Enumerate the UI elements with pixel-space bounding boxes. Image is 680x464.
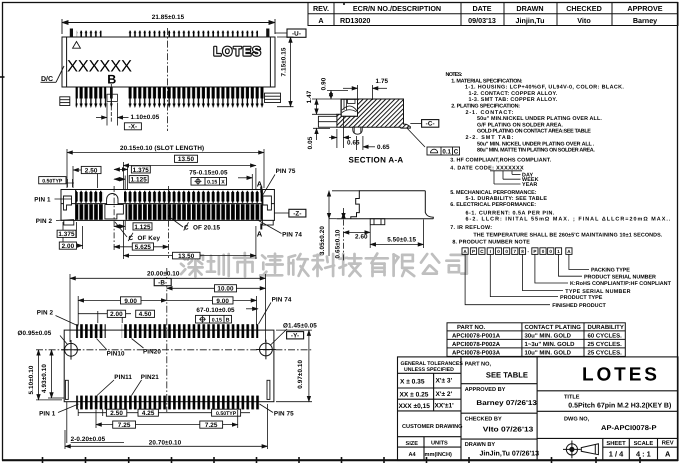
svg-text:PART NO.: PART NO. xyxy=(457,324,486,331)
svg-text:1. MATERIAL SPECIFICATION:: 1. MATERIAL SPECIFICATION: xyxy=(451,78,523,84)
dim 20.70±0.10 xyxy=(65,404,267,449)
centerline of Key label xyxy=(115,222,127,237)
svg-text:C: C xyxy=(454,148,459,155)
datum -Z- xyxy=(274,212,289,214)
svg-text:20.15±0.10 (SLOT LENGTH): 20.15±0.10 (SLOT LENGTH) xyxy=(120,145,204,152)
svg-text:0.1: 0.1 xyxy=(442,148,451,155)
profile tolerance frame 0.1 C xyxy=(427,147,460,155)
svg-text:SIZE: SIZE xyxy=(406,441,419,447)
left metal clip detail xyxy=(64,196,74,225)
svg-text:0.90: 0.90 xyxy=(321,77,328,90)
svg-text:OF 20.15: OF 20.15 xyxy=(193,225,220,232)
svg-text:SECTION A-A: SECTION A-A xyxy=(349,156,404,165)
svg-text:7.15±0.15: 7.15±0.15 xyxy=(281,47,288,76)
svg-text:C: C xyxy=(129,235,134,242)
part number table xyxy=(447,323,625,357)
svg-text:FINISHED PRODUCT: FINISHED PRODUCT xyxy=(552,303,606,309)
svg-text:0: 0 xyxy=(505,249,508,254)
svg-text:25 CYCLES.: 25 CYCLES. xyxy=(588,341,623,348)
svg-text:UNITS: UNITS xyxy=(431,441,448,447)
dim 1.125 lower xyxy=(114,221,125,230)
svg-text:5.50±0.15: 5.50±0.15 xyxy=(387,237,416,244)
svg-text:P: P xyxy=(472,249,475,254)
dim 9.00 left xyxy=(78,296,167,325)
right solder tab pad xyxy=(267,380,270,399)
date code bracket xyxy=(490,171,522,184)
svg-text:SEE TABLE: SEE TABLE xyxy=(486,370,528,379)
svg-text:PIN 75: PIN 75 xyxy=(274,411,294,418)
svg-text:K:RoHS CONPLIANT/P:HF CONPLIAN: K:RoHS CONPLIANT/P:HF CONPLIANT xyxy=(570,281,672,287)
svg-text:UNLESS SPECIFIED: UNLESS SPECIFIED xyxy=(404,367,454,373)
dims 7.25 / 7.25 xyxy=(96,410,238,428)
dim 0.65 second xyxy=(356,136,375,150)
product number leader labels xyxy=(552,268,671,309)
svg-text:0: 0 xyxy=(549,249,552,254)
third angle projection symbol xyxy=(563,441,598,459)
svg-text:VIto 07/26'13: VIto 07/26'13 xyxy=(483,426,534,434)
svg-text:25 CYCLES.: 25 CYCLES. xyxy=(588,350,623,357)
svg-text:6-2. LLCR: INITAL 55mΩ MAX. ;: 6-2. LLCR: INITAL 55mΩ MAX. ; FINAL ΔLLC… xyxy=(466,217,671,223)
front view centerline xyxy=(167,28,169,131)
right SMT tab xyxy=(265,93,281,102)
svg-text:-Z-: -Z- xyxy=(293,210,301,217)
dim 2.60 xyxy=(344,208,371,262)
solder tab below side view xyxy=(370,219,385,225)
svg-text:NOTES:: NOTES: xyxy=(446,72,463,78)
dim 2-0.20±0.05 xyxy=(66,402,68,443)
horizontal centerline xyxy=(36,349,312,351)
pin B dashed leader xyxy=(110,84,112,122)
svg-text:PIN 2: PIN 2 xyxy=(36,218,53,225)
svg-text:0.50TYP: 0.50TYP xyxy=(42,178,63,184)
front view top pin marks xyxy=(77,31,258,38)
key centerline xyxy=(113,186,115,250)
svg-text:1.125: 1.125 xyxy=(131,177,148,184)
svg-text:-X-: -X- xyxy=(129,124,138,131)
svg-text:LOTES: LOTES xyxy=(582,365,660,386)
svg-text:2-0.20±0.05: 2-0.20±0.05 xyxy=(71,436,106,443)
svg-text:LOTES: LOTES xyxy=(214,45,263,59)
svg-text:Jinjin,Tu: Jinjin,Tu xyxy=(515,16,544,25)
svg-text:APCI0078-P001A: APCI0078-P001A xyxy=(452,333,501,340)
svg-text:-U-: -U- xyxy=(292,30,301,37)
dim 0.97±0.10 xyxy=(276,330,312,402)
svg-text:Ø0.95±0.05: Ø0.95±0.05 xyxy=(18,330,52,337)
svg-text:X: X xyxy=(221,180,225,186)
dim 0.90 xyxy=(327,91,348,100)
dim 2.00 lower xyxy=(63,226,83,249)
svg-text:A: A xyxy=(665,449,671,458)
svg-text:X ± 0.35: X ± 0.35 xyxy=(400,379,425,386)
datum -U- xyxy=(275,32,287,34)
svg-text:3.05±0.20: 3.05±0.20 xyxy=(319,226,326,255)
svg-text:DRAWN: DRAWN xyxy=(516,4,543,13)
dim 1.47 xyxy=(312,99,341,114)
svg-text:0.65: 0.65 xyxy=(347,140,360,147)
svg-text:Barney: Barney xyxy=(633,16,657,25)
key pin B tooth xyxy=(110,87,113,108)
svg-text:Vito: Vito xyxy=(577,16,591,25)
svg-text:TITLE: TITLE xyxy=(564,395,580,401)
view2 lower contact row xyxy=(76,204,104,220)
svg-text:APCI0078-P002A: APCI0078-P002A xyxy=(452,341,501,348)
vertical centerline xyxy=(166,268,168,412)
svg-text:DURABILITY: DURABILITY xyxy=(588,324,624,331)
svg-text:67-0.10±0.05: 67-0.10±0.05 xyxy=(196,307,235,314)
svg-text:4.25: 4.25 xyxy=(142,410,155,417)
revision table text xyxy=(313,4,663,25)
svg-text:1.375: 1.375 xyxy=(58,231,75,238)
svg-text:8: 8 xyxy=(521,249,524,254)
svg-text:ECR/N NO./DESCRIPTION: ECR/N NO./DESCRIPTION xyxy=(353,4,441,13)
svg-text:0: 0 xyxy=(542,249,545,254)
svg-text:1-2. CONTACT: COPPER ALLOY.: 1-2. CONTACT: COPPER ALLOY. xyxy=(469,91,558,97)
dim 20.15 slot length xyxy=(67,149,264,188)
dim 1.375 lower xyxy=(63,222,76,249)
svg-text:2.00: 2.00 xyxy=(110,311,123,318)
right metal clip detail xyxy=(262,196,273,225)
svg-text:2.60: 2.60 xyxy=(355,234,368,241)
svg-text:APCI0078-P003A: APCI0078-P003A xyxy=(452,350,501,357)
dim 0.65±0.10 xyxy=(343,213,345,219)
svg-text:7: 7 xyxy=(514,249,517,254)
svg-text:1.125: 1.125 xyxy=(134,224,151,231)
svg-text:75-0.15±0.05: 75-0.15±0.05 xyxy=(189,170,228,177)
svg-text:-C-: -C- xyxy=(426,121,435,128)
svg-text:C: C xyxy=(184,225,189,232)
svg-text:A4: A4 xyxy=(409,452,417,458)
svg-text:10.00: 10.00 xyxy=(217,286,234,293)
dim 13.50 top xyxy=(123,162,256,190)
svg-text:CUSTOMER DRAWING: CUSTOMER DRAWING xyxy=(402,424,463,430)
svg-text:21.85±0.15: 21.85±0.15 xyxy=(152,14,185,21)
side view housing profile xyxy=(337,191,434,219)
svg-text:6. ELECTRICAL PERFORMANCE:: 6. ELECTRICAL PERFORMANCE: xyxy=(450,202,536,208)
svg-text:XX ± 0.25: XX ± 0.25 xyxy=(400,392,429,399)
svg-text:-Y-: -Y- xyxy=(291,333,299,340)
svg-text:20.70±0.10: 20.70±0.10 xyxy=(149,439,182,446)
svg-text:OF Key: OF Key xyxy=(138,235,161,242)
slot centerline xyxy=(168,186,170,258)
svg-text:0.65±0.10: 0.65±0.10 xyxy=(335,229,342,258)
svg-text:XX'±1': XX'±1' xyxy=(435,403,455,410)
svg-text:PIN 75: PIN 75 xyxy=(276,168,296,175)
svg-text:Ø1.45±0.05: Ø1.45±0.05 xyxy=(283,323,317,330)
svg-text:1-1. HOUSING: LCP+40%GF, UL94V: 1-1. HOUSING: LCP+40%GF, UL94V-0, COLOR:… xyxy=(465,85,624,91)
general tolerances text xyxy=(401,361,464,373)
svg-text:SHEET: SHEET xyxy=(606,440,626,447)
svg-text:JinJin,Tu 07/26'13: JinJin,Tu 07/26'13 xyxy=(480,449,540,457)
svg-text:1.375: 1.375 xyxy=(133,167,150,174)
footprint outline xyxy=(64,330,274,402)
left SMT tab xyxy=(60,97,70,106)
dim 1.375 upper xyxy=(114,165,128,190)
bottom heavy border line xyxy=(2,459,678,461)
svg-text:0.97±0.10: 0.97±0.10 xyxy=(297,359,304,388)
svg-text:DWG NO,: DWG NO, xyxy=(564,416,590,422)
svg-text:PIN 74: PIN 74 xyxy=(282,232,302,239)
svg-text:CONTACT PLATING: CONTACT PLATING xyxy=(525,324,582,331)
dim 5.625 xyxy=(114,246,168,248)
svg-text:B: B xyxy=(107,73,116,87)
product number leader lines xyxy=(465,254,589,304)
svg-text:1: 1 xyxy=(557,249,560,254)
left mounting hole xyxy=(61,340,81,360)
svg-text:0.5Pitch 67pin M.2 H3.2(KEY B): 0.5Pitch 67pin M.2 H3.2(KEY B) xyxy=(568,402,671,410)
svg-text:PRODUCT TYPE: PRODUCT TYPE xyxy=(560,295,603,301)
svg-text:8. PRODUCT NUMBER NOTE: 8. PRODUCT NUMBER NOTE xyxy=(452,240,530,246)
svg-text:A: A xyxy=(318,16,323,25)
view2 upper contact row xyxy=(76,191,104,203)
left solder tab pad xyxy=(65,380,68,399)
svg-text:DATE: DATE xyxy=(472,4,491,13)
svg-text:CHECKED BY: CHECKED BY xyxy=(465,417,502,423)
svg-text:TYPE SERIAL NUMBER: TYPE SERIAL NUMBER xyxy=(565,289,630,295)
title / dwg no xyxy=(564,395,590,423)
svg-text:YEAR: YEAR xyxy=(522,182,537,188)
left SMT tab section xyxy=(318,116,337,127)
svg-text:APPROVED BY: APPROVED BY xyxy=(465,387,506,393)
svg-text:1 / 4: 1 / 4 xyxy=(609,449,624,458)
svg-text:P: P xyxy=(533,249,536,254)
svg-text:DRAWN BY: DRAWN BY xyxy=(465,442,496,448)
front view solder tail comb right xyxy=(129,87,264,108)
svg-text:7. IR REFLOW:: 7. IR REFLOW: xyxy=(450,225,492,231)
dim 0.05 xyxy=(313,128,330,140)
svg-text:09/03'13: 09/03'13 xyxy=(468,16,496,25)
dim 1.75 xyxy=(343,85,387,100)
dim 2.50 xyxy=(73,166,98,188)
polarity triangle mark xyxy=(73,42,81,49)
dim 1.125 upper xyxy=(114,176,125,191)
svg-text:50u" MIN. NICKEL UNDER PLATING: 50u" MIN. NICKEL UNDER PLATING OVER ALL … xyxy=(477,141,595,147)
svg-text:80u" MIN. MATTE TIN PLATING ON: 80u" MIN. MATTE TIN PLATING ON SOLDER AR… xyxy=(477,148,595,154)
svg-text:1~3u" MIN. GOLD: 1~3u" MIN. GOLD xyxy=(525,341,576,348)
centerline of 20.15 label xyxy=(170,217,184,227)
position tolerance frame 0.15 X xyxy=(191,178,227,186)
dim 0.50TYP xyxy=(39,177,66,185)
dim 1.10±0.05 xyxy=(96,103,129,126)
dim 5.50±0.15 xyxy=(370,220,423,249)
dim 0.65 first xyxy=(329,117,351,149)
dim 21.85±0.15 xyxy=(62,19,275,34)
svg-text:PRODUCT SERIAL NUMBER: PRODUCT SERIAL NUMBER xyxy=(584,274,656,280)
svg-text:10u" MIN. GOLD: 10u" MIN. GOLD xyxy=(525,350,572,357)
svg-text:0.05: 0.05 xyxy=(307,136,314,149)
svg-text:5.625: 5.625 xyxy=(135,244,152,251)
svg-text:7.25: 7.25 xyxy=(205,422,218,429)
svg-text:2-2. SMT TAB:: 2-2. SMT TAB: xyxy=(466,135,514,141)
svg-text:REV.: REV. xyxy=(313,4,329,13)
svg-text:THE TEMPERATURE SHALL BE 260±5: THE TEMPERATURE SHALL BE 260±5'C MAINTAI… xyxy=(473,233,662,239)
svg-text:B: B xyxy=(226,318,230,324)
svg-text:XXX ±0,15: XXX ±0,15 xyxy=(399,403,431,410)
svg-text:9.00: 9.00 xyxy=(216,298,229,305)
svg-text:1.10±0.05: 1.10±0.05 xyxy=(131,114,160,121)
svg-text:GOLD PLATING ON CONTACT AREA:S: GOLD PLATING ON CONTACT AREA:SEE TABLE xyxy=(477,129,591,135)
svg-text:PACKING TYPE: PACKING TYPE xyxy=(591,268,630,274)
svg-text:2.50: 2.50 xyxy=(110,410,123,417)
svg-text:1.75: 1.75 xyxy=(376,78,389,85)
svg-text:2. PLATING SPECIFICATION:: 2. PLATING SPECIFICATION: xyxy=(451,104,520,110)
svg-text:PIN10: PIN10 xyxy=(107,351,125,358)
dim 5.10±0.10 xyxy=(36,350,62,400)
revision table xyxy=(308,3,678,26)
svg-text:mm(INCH): mm(INCH) xyxy=(425,451,452,458)
title block frame xyxy=(398,357,679,461)
right mounting hole xyxy=(256,340,276,360)
svg-text:PIN 74: PIN 74 xyxy=(272,296,292,303)
contact cavity detail xyxy=(341,99,357,116)
svg-text:0.50TYP: 0.50TYP xyxy=(216,411,237,417)
datum -X- xyxy=(124,123,141,130)
svg-text:13.50: 13.50 xyxy=(178,253,195,260)
svg-text:13.50: 13.50 xyxy=(178,156,195,163)
dim 10.00 xyxy=(167,287,266,289)
svg-text:PIN 1: PIN 1 xyxy=(34,197,51,204)
position tolerance frame 0.15 B xyxy=(196,315,232,323)
top pad row xyxy=(76,324,106,338)
svg-text:0.15: 0.15 xyxy=(207,180,217,186)
front view solder tail comb left xyxy=(76,87,107,108)
svg-text:2.00: 2.00 xyxy=(62,243,75,250)
svg-text:9.00: 9.00 xyxy=(124,298,137,305)
datum -B- xyxy=(154,279,171,287)
svg-text:5.10±0.10: 5.10±0.10 xyxy=(28,365,35,394)
dim 13.50 bottom xyxy=(123,220,256,259)
leader to profile tolerance xyxy=(407,128,425,147)
svg-text:7.25: 7.25 xyxy=(118,422,131,429)
svg-text:2-1. CONTACT:: 2-1. CONTACT: xyxy=(466,110,514,116)
view2 housing outline xyxy=(61,190,274,221)
svg-text:CHECKED: CHECKED xyxy=(566,4,602,13)
part no / signatures xyxy=(465,361,506,448)
svg-text:PART NO,: PART NO, xyxy=(465,361,492,367)
dims 2.50 / 4.25 / 0.50TYP xyxy=(78,409,250,416)
svg-text:RD13020: RD13020 xyxy=(340,16,370,25)
dim 7.15±0.15 xyxy=(277,37,294,107)
hatched housing section xyxy=(337,99,410,128)
svg-text:SCALE: SCALE xyxy=(634,440,654,447)
svg-text:PIN 1: PIN 1 xyxy=(39,411,56,418)
dim 20.00±0.10 xyxy=(70,274,266,342)
svg-text:-B-: -B- xyxy=(158,280,167,287)
svg-text:X'± 3': X'± 3' xyxy=(436,378,453,385)
dim 9.00 right xyxy=(167,296,257,325)
watermark: Shenzhen Lianxin Technology company name (gray CJK) xyxy=(181,253,467,277)
dim 75-0.15±0.05 xyxy=(238,174,252,190)
key slot feature xyxy=(105,194,124,219)
svg-text:4 : 1: 4 : 1 xyxy=(636,449,651,458)
svg-text:50u" MIN.NICKEL UNDER PLATING: 50u" MIN.NICKEL UNDER PLATING OVER ALL. xyxy=(477,116,602,122)
svg-text:A: A xyxy=(257,230,263,239)
solder boss below section xyxy=(353,127,362,134)
svg-text:PIN20: PIN20 xyxy=(143,349,161,356)
svg-text:REV: REV xyxy=(662,441,674,447)
svg-text:4.93±0.10: 4.93±0.10 xyxy=(41,364,48,393)
svg-text:60 CYCLES.: 60 CYCLES. xyxy=(588,333,623,340)
box around pin B tooth xyxy=(107,94,117,101)
svg-text:1.47: 1.47 xyxy=(306,90,313,103)
datum -C- xyxy=(410,123,421,125)
svg-text:30u" MIN. GOLD: 30u" MIN. GOLD xyxy=(525,333,572,340)
svg-text:PIN11: PIN11 xyxy=(114,374,132,381)
svg-text:4.50: 4.50 xyxy=(139,311,152,318)
front view end posts xyxy=(70,29,270,38)
svg-text:Barney 07/26'13: Barney 07/26'13 xyxy=(476,399,537,407)
svg-text:D/C: D/C xyxy=(41,75,53,83)
svg-text:X'± 2': X'± 2' xyxy=(436,391,453,398)
dim 3.05±0.20 xyxy=(329,191,360,256)
svg-text:AP-APCI0078-P: AP-APCI0078-P xyxy=(601,425,657,432)
svg-text:1-3. SMT TAB: COPPER ALLOY.: 1-3. SMT TAB: COPPER ALLOY. xyxy=(469,97,558,103)
sheet / scale / rev xyxy=(606,440,673,447)
svg-text:0.15: 0.15 xyxy=(212,318,222,324)
svg-text:PIN21: PIN21 xyxy=(141,374,159,381)
dim 4.93±0.10 xyxy=(48,350,64,398)
svg-text:20.00±0.10: 20.00±0.10 xyxy=(147,271,180,278)
svg-text:I: I xyxy=(490,249,491,254)
svg-text:APPROVE: APPROVE xyxy=(627,4,662,13)
front view housing body xyxy=(62,37,275,87)
bottom pad row xyxy=(76,396,261,410)
svg-text:0: 0 xyxy=(497,249,500,254)
LOTES outline logo on housing xyxy=(214,45,263,59)
svg-text:0.65: 0.65 xyxy=(377,144,390,151)
svg-text:PIN 2: PIN 2 xyxy=(37,310,54,317)
svg-text:3. HF COMPLIANT,ROHS COMPLIANT: 3. HF COMPLIANT,ROHS COMPLIANT. xyxy=(450,158,551,164)
product number code boxes xyxy=(462,248,572,255)
datum -Y- xyxy=(287,332,304,339)
svg-text:XXXXXX: XXXXXX xyxy=(67,58,132,76)
svg-text:G/F PLATING ON SOLDER AREA.: G/F PLATING ON SOLDER AREA. xyxy=(477,122,563,128)
svg-text:2.50: 2.50 xyxy=(85,167,98,174)
dim 2.00 / 4.50 xyxy=(78,311,131,323)
